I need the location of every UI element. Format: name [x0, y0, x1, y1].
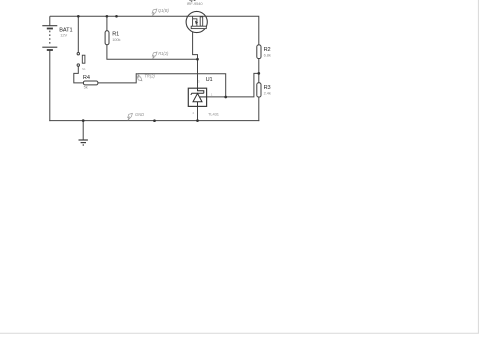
junction dot top rail / R1 [106, 15, 109, 18]
cathode jog [198, 88, 204, 93]
net label GND [128, 112, 144, 121]
resistor R1 [105, 31, 109, 45]
wire: bottom ground rail [49, 120, 259, 122]
ground [79, 140, 88, 145]
svg-text:2: 2 [193, 111, 195, 115]
svg-text:TL431: TL431 [208, 112, 220, 117]
junction bendpoint on bottom rail [153, 119, 156, 122]
svg-text:GND: GND [135, 112, 144, 117]
net label Q1(B) on top rail [152, 8, 169, 16]
wire: ground stem [82, 121, 84, 140]
switch S1 [77, 53, 85, 67]
junction bendpoint on top rail [115, 15, 118, 18]
svg-text:R1(2): R1(2) [158, 51, 169, 56]
diode triangle [193, 93, 202, 101]
resistor R3 [257, 83, 261, 97]
net label TR(2) below wire [137, 74, 155, 81]
junction dot divider R2/R3 [257, 72, 260, 75]
wire: U1 ref to divider junction [200, 73, 259, 97]
svg-text:3: 3 [198, 80, 200, 84]
junction dot TR node on ref wire [224, 96, 227, 99]
wire: R2 bottom to junction [258, 58, 260, 83]
svg-text:5k: 5k [84, 84, 88, 89]
canvas frame bottom edge [0, 332, 479, 334]
wire: Q1 gate lead with jog [193, 29, 198, 60]
wire: U1 anode to bottom rail [197, 106, 199, 120]
ref pin stub [200, 96, 207, 98]
wire: R3 bottom to bottom rail [258, 97, 260, 121]
svg-text:12V: 12V [60, 33, 67, 38]
svg-text:2.4k: 2.4k [264, 90, 271, 95]
junction dot gate node [196, 58, 199, 61]
svg-text:1: 1 [211, 93, 213, 97]
junction dot U1 anode [196, 119, 199, 122]
wire: R4 to TR node riser [98, 74, 226, 97]
junction dot ground stem [82, 119, 85, 122]
svg-text:U1: U1 [206, 77, 213, 83]
wire: R1 top lead [106, 16, 108, 31]
wire: battery top lead [49, 16, 51, 26]
wire: R1 bottom lead and horizontal to gate node [107, 45, 198, 60]
junction dot top rail / switch [77, 15, 80, 18]
wire: top rail from battery to right corner [50, 15, 187, 17]
wire: battery bottom lead [49, 50, 51, 121]
svg-text:TR(2): TR(2) [144, 74, 155, 79]
op-amp U1 (TL431 shunt regulator) [188, 88, 206, 106]
canvas frame right edge [477, 0, 479, 333]
net label R1(2) [152, 51, 169, 59]
wire: right vertical top (to R2) [207, 16, 259, 45]
battery BAT1 [42, 26, 57, 50]
resistor R2 [257, 45, 261, 59]
svg-text:Q1(B): Q1(B) [158, 8, 170, 13]
resistor R4 [83, 81, 98, 85]
wire: switch branch from top rail [77, 16, 79, 52]
transistor Q1 (P-MOSFET in circle) [186, 11, 207, 32]
zener bar [191, 93, 204, 95]
svg-text:6.8k: 6.8k [264, 52, 271, 57]
svg-text:100k: 100k [112, 37, 120, 42]
anode through [197, 102, 199, 107]
svg-text:S1: S1 [82, 67, 86, 71]
svg-text:IRF-9540: IRF-9540 [187, 1, 204, 6]
wire: switch to R4 [74, 66, 84, 83]
svg-text:R4: R4 [83, 75, 90, 81]
wire: gate node down to U1 cathode [197, 59, 199, 88]
